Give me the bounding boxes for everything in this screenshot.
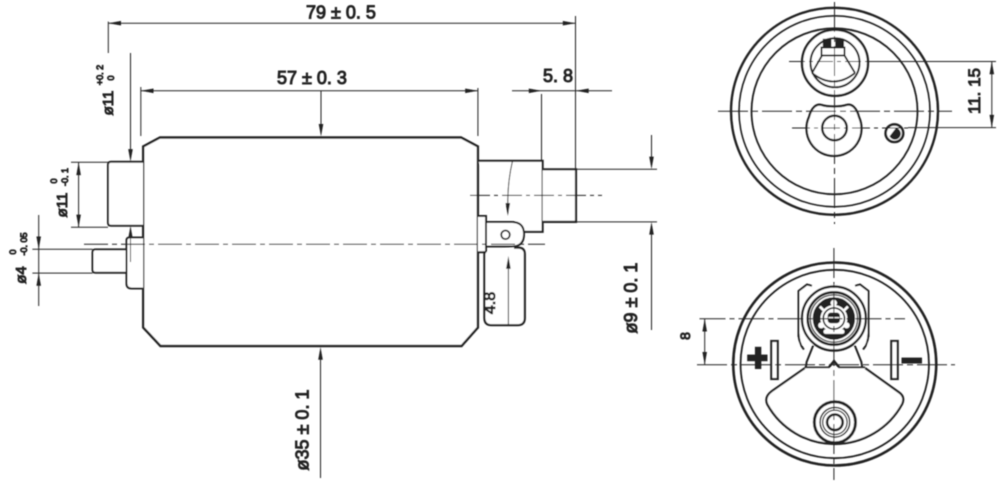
dim 8 — [704, 319, 706, 365]
svg-text:ø9 ± 0. 1: ø9 ± 0. 1 — [621, 263, 641, 334]
svg-text:ø11: ø11 — [54, 193, 71, 218]
dim 57+-0.3 — [140, 87, 142, 136]
outlet port circles — [814, 402, 855, 443]
bottom view vertical center line — [833, 248, 835, 480]
dim 4.8 — [508, 161, 513, 206]
connector outer circle — [802, 287, 866, 351]
main pump body outline — [143, 138, 478, 347]
dim 5.8 — [541, 94, 543, 160]
electrical tab with hole — [486, 222, 524, 247]
bottom view horizontal center line — [697, 364, 955, 366]
bell bottom edge with middle notch — [805, 361, 866, 368]
lower block on right face — [484, 248, 524, 326]
inlet cone lines — [812, 56, 822, 74]
dim phi9 +-0.1 — [576, 168, 657, 170]
main center line — [84, 243, 545, 245]
inlet tube phi11 (left upper) — [108, 162, 143, 226]
svg-text:11. 15: 11. 15 — [965, 68, 984, 114]
outlet tube center line — [470, 194, 602, 196]
svg-text:5. 8: 5. 8 — [543, 66, 573, 86]
connector bell sides — [799, 333, 805, 350]
shaft phi4 (left lower) — [93, 249, 128, 272]
svg-text:ø4: ø4 — [13, 266, 30, 284]
label phi4 0/-0.05 — [8, 232, 30, 283]
svg-text:0: 0 — [49, 178, 59, 183]
label 4.8 — [482, 292, 499, 314]
fan / skirt shape — [766, 368, 903, 444]
connector dark contact ring — [810, 295, 857, 342]
hub washer with wavy top — [806, 105, 861, 156]
dim phi11 0/-0.1 — [71, 161, 108, 163]
inlet key rect — [822, 48, 845, 56]
top view horizontal center line — [718, 110, 952, 112]
label phi11 0/-0.1 — [49, 168, 71, 217]
svg-text:4.8: 4.8 — [482, 292, 499, 314]
svg-text:-0. 05: -0. 05 — [19, 232, 29, 255]
outlet tube phi9 — [543, 169, 576, 222]
connector horizontal center line — [700, 318, 906, 320]
label phi11 +0.2/0 — [95, 65, 117, 116]
connector center — [821, 305, 848, 332]
minus terminal mark — [902, 358, 923, 364]
label 11.15 — [965, 68, 984, 114]
inlet port circle — [802, 30, 868, 96]
svg-text:+0. 2: +0. 2 — [95, 65, 105, 85]
inlet key slots (dark) — [823, 39, 832, 48]
top view vertical center line — [834, 2, 836, 224]
side hole with crescent — [886, 124, 904, 142]
label phi9 — [621, 263, 641, 334]
collar at left face — [127, 238, 144, 289]
dim phi11 +0.2/0 leader — [130, 53, 132, 157]
tab hole — [501, 231, 510, 240]
svg-text:57 ± 0. 3: 57 ± 0. 3 — [277, 68, 347, 88]
svg-text:79 ± 0. 5: 79 ± 0. 5 — [306, 3, 376, 23]
dim 79+-0.5 — [107, 22, 109, 53]
outer shell circles — [733, 263, 936, 466]
svg-text:ø35 ± 0. 1: ø35 ± 0. 1 — [293, 390, 313, 471]
label phi35 — [293, 390, 313, 471]
base plate on right face — [478, 216, 486, 252]
svg-text:0: 0 — [8, 249, 18, 254]
svg-text:-0. 1: -0. 1 — [60, 168, 70, 186]
inlet horizontal center line — [789, 61, 881, 63]
right slot — [891, 341, 897, 379]
left slot — [771, 341, 777, 379]
connector flange with ears — [799, 285, 869, 346]
plus terminal mark — [747, 355, 767, 362]
dim phi35 +-0.1 — [320, 352, 322, 478]
white notches in ring — [831, 300, 837, 306]
dim phi4 0/-0.05 — [32, 248, 92, 250]
svg-text:ø11: ø11 — [100, 91, 117, 116]
label 8 — [677, 332, 693, 340]
svg-text:8: 8 — [677, 332, 693, 340]
outer shell circles — [731, 8, 938, 215]
dim 11.15 — [869, 61, 996, 63]
svg-text:0: 0 — [106, 75, 116, 80]
hub horizontal center line — [792, 127, 912, 129]
right step block — [478, 161, 543, 232]
hub inner circle — [822, 116, 847, 141]
